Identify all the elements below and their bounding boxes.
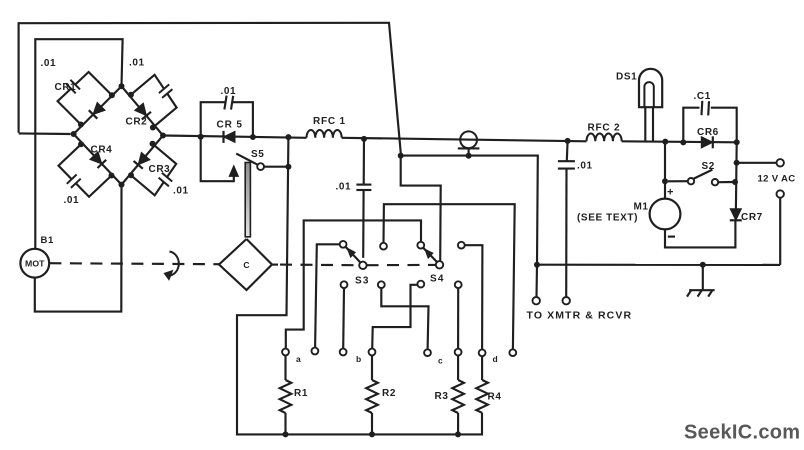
contact above R3: [455, 349, 462, 356]
junction dot ground rail left: [534, 262, 540, 268]
motor M1: [664, 142, 666, 199]
contact d: [509, 349, 516, 356]
switch S5 arm: [236, 154, 257, 165]
svg-text:.01: .01: [64, 195, 80, 206]
switch S2: [668, 180, 688, 182]
svg-text:DS1: DS1: [616, 72, 637, 83]
contact above R2: [369, 349, 376, 356]
diode CR7: [730, 209, 741, 221]
svg-text:C: C: [243, 260, 250, 270]
inductor RFC1: [307, 130, 342, 138]
svg-text:RFC 1: RFC 1: [313, 116, 346, 127]
contact second row3: [312, 348, 319, 355]
capacitor .01 bus to S3 wiper: [363, 139, 365, 185]
wire fixed contact to d contact: [384, 204, 515, 349]
svg-text:CR 5: CR 5: [217, 120, 243, 131]
svg-text:B1: B1: [41, 235, 54, 246]
switch S4: [423, 248, 437, 263]
terminal to XMTR hot: [563, 297, 570, 304]
junction dots C1: [680, 139, 686, 145]
rotary wiper symbol on bus: [460, 131, 477, 148]
diode CR5: [224, 131, 236, 142]
svg-text:S5: S5: [251, 149, 264, 160]
svg-text:.01: .01: [221, 86, 237, 97]
switch S5 contact: [257, 163, 264, 170]
wire fixed contact to R4: [465, 245, 483, 349]
capacitor .01 across CR1: [75, 72, 112, 95]
svg-text:c: c: [438, 356, 443, 366]
svg-text:TO XMTR & RCVR: TO XMTR & RCVR: [527, 310, 633, 322]
junction dots CR3 loop: [150, 141, 156, 147]
svg-text:.01: .01: [129, 58, 145, 69]
diode CR6: [701, 137, 713, 148]
contact c: [424, 349, 431, 356]
chassis ground symbol: [702, 265, 704, 290]
wire bus drop to resistor common: [237, 137, 482, 434]
svg-text:RFC 2: RFC 2: [588, 123, 621, 134]
capacitor .01 bus to XMTR: [566, 141, 569, 161]
fixed contact upper right: [458, 242, 465, 249]
resistor R3: [457, 356, 459, 381]
diode CR4: [90, 152, 102, 164]
contact above R4: [479, 349, 486, 356]
junction dots CR2 loop: [128, 92, 134, 98]
wire CR5 anode to S5 actuator arrow: [201, 137, 234, 181]
junction dots CR1 loop: [109, 92, 115, 98]
contact b: [340, 349, 347, 356]
bottom bus junction dots: [283, 431, 289, 437]
wire motor top to bridge top node: [35, 39, 122, 249]
diode CR3: [138, 152, 150, 164]
svg-text:CR4: CR4: [91, 145, 113, 156]
junction dots CR5: [198, 134, 204, 140]
contact row2 fourth: [455, 281, 462, 288]
contact row2 first: [341, 281, 348, 288]
main bus right section: [622, 141, 737, 142]
wire to 12V terminal upper: [737, 162, 777, 164]
svg-text:.01: .01: [336, 182, 352, 193]
contact a: [282, 349, 289, 356]
inductor RFC2: [587, 133, 622, 141]
wire takeoff rail: [401, 156, 538, 265]
junction dot RFC1 right: [361, 136, 367, 142]
svg-text:SeekIC.com: SeekIC.com: [684, 422, 800, 444]
wire S4 rotor to contact a: [286, 220, 421, 348]
svg-text:.01: .01: [577, 161, 593, 172]
svg-text:S3: S3: [355, 276, 370, 287]
svg-text:R1: R1: [294, 388, 308, 399]
svg-text:a: a: [296, 354, 301, 364]
lamp DS1: [639, 69, 662, 107]
capacitor .C1: [683, 108, 699, 143]
resistor R2: [371, 355, 373, 380]
svg-text:R2: R2: [382, 388, 396, 399]
switch S3: [346, 247, 361, 263]
junction dot ground symbol: [700, 262, 706, 268]
junction dots takeoff rail: [398, 153, 404, 159]
resistor R4: [481, 356, 483, 380]
svg-text:R3: R3: [435, 391, 449, 402]
svg-text:b: b: [356, 354, 362, 364]
svg-text:(SEE TEXT): (SEE TEXT): [577, 213, 638, 224]
terminal 12V AC lower: [777, 190, 784, 197]
svg-text:S4: S4: [430, 274, 445, 285]
dashed shaft cam to S3: [272, 264, 278, 266]
svg-text:R4: R4: [488, 392, 502, 403]
wire S3 rotor to second contact: [315, 244, 340, 347]
wire row2 fourth to R3: [457, 288, 459, 348]
svg-text:CR7: CR7: [741, 212, 763, 223]
wire M1 minus to CR7 cathode: [665, 220, 735, 248]
wire row2 second to contact c: [381, 288, 428, 349]
junction dots CR4 loop: [78, 141, 84, 147]
bridge node dots: [119, 83, 125, 89]
wire S5 contact to bus drop: [264, 166, 288, 168]
svg-text:d: d: [493, 354, 499, 364]
wire row2 third to R2: [372, 285, 417, 349]
capacitor .01 across CR2: [131, 75, 164, 95]
contact row2 second: [378, 281, 385, 288]
contact row2 third: [417, 281, 424, 288]
resistor R1: [284, 355, 286, 380]
dashed shaft S3 to S4: [367, 264, 436, 266]
actuator link S5 to cam: [245, 163, 250, 237]
cam C diamond: [219, 239, 272, 290]
diode bridge frame: [74, 86, 163, 184]
svg-text:S2: S2: [702, 161, 715, 172]
terminal to XMTR ground: [533, 297, 540, 304]
wire lower terminal to ground rail: [779, 198, 781, 265]
wire CR6 cathode down to CR7: [735, 142, 738, 210]
terminal 12V AC upper: [777, 159, 784, 166]
main bus middle section: [342, 138, 587, 142]
wire bridge bottom to motor: [35, 185, 122, 312]
capacitor .01 across CR4: [59, 144, 82, 179]
wire rail to S4 wiper: [401, 156, 441, 262]
svg-text:.C1: .C1: [694, 91, 711, 102]
junction dot S5 bus tap: [285, 134, 291, 140]
capacitor .01 across CR5: [201, 102, 225, 137]
svg-text:CR2: CR2: [126, 117, 148, 128]
diode CR2: [135, 103, 147, 115]
motor B1 MOT: [20, 249, 49, 278]
svg-text:.01: .01: [41, 58, 57, 69]
wire bridge left node to outer loop: [19, 132, 71, 135]
dashed mechanical shaft motor to cam: [49, 263, 219, 264]
svg-text:+: +: [667, 187, 673, 199]
capacitor .01 across CR3: [153, 144, 177, 177]
diode CR1: [93, 102, 105, 114]
svg-text:CR6: CR6: [697, 127, 719, 138]
wire outer supply loop (bridge left node to top rail to bus junction): [19, 23, 401, 156]
svg-text:12 V AC: 12 V AC: [758, 174, 796, 185]
main bus left section: [163, 136, 307, 138]
svg-text:CR3: CR3: [149, 164, 171, 175]
svg-text:M1: M1: [634, 202, 649, 213]
ground rail: [537, 264, 780, 266]
wire row2 first to row3: [342, 288, 345, 349]
fixed contact upper middle: [380, 243, 387, 250]
rotation arrow: [170, 252, 179, 276]
S5 actuator arrow: [229, 166, 238, 177]
svg-text:MOT: MOT: [25, 258, 45, 268]
svg-text:.01: .01: [173, 186, 189, 197]
